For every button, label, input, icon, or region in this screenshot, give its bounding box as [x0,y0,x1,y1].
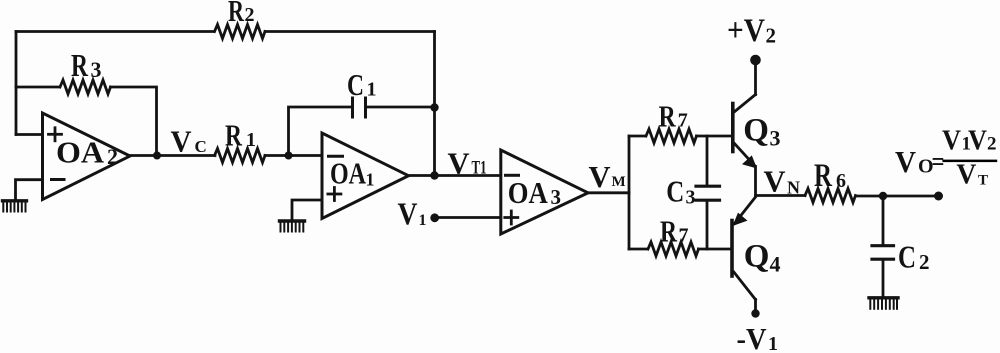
wire C1 right to vertical [366,106,435,109]
minus sign OA1 [329,155,343,158]
op-amp OA3 [501,150,588,234]
svg-text:6: 6 [836,170,846,192]
wire C2 bottom to ground [882,261,885,297]
svg-text:V: V [895,144,917,179]
svg-text:V: V [171,124,193,159]
wire V1 input to OA3 [435,216,501,219]
svg-text:3: 3 [686,186,696,208]
wire branch vertical at VM [628,136,631,249]
wire OA2 output to VC node [130,154,157,157]
wire OA3 output VM [588,191,629,194]
svg-text:R: R [225,118,242,153]
wire OA1 feedback up [289,107,353,156]
capacitor C3 [696,185,720,188]
wire bottom branch to R7 [629,248,647,251]
svg-text:V: V [764,163,787,198]
svg-text:3: 3 [770,126,781,151]
svg-text:T: T [978,172,988,188]
plus sign OA1 [328,188,341,201]
wire C3 top stub [706,136,709,185]
svg-text:4: 4 [770,252,781,277]
wire left feedback vertical [15,32,18,135]
svg-text:C: C [898,239,916,275]
svg-text:OA: OA [56,135,105,170]
svg-text:2: 2 [107,144,118,169]
wire R2 top horizontal left segment [16,30,214,33]
svg-text:1: 1 [367,78,377,100]
wire VN to R6 [756,194,806,197]
wire R2 right vertical down to VT1 [433,32,436,176]
svg-text:OA: OA [330,156,366,191]
resistor R2 [215,25,266,39]
svg-text:C: C [666,173,684,208]
svg-text:1: 1 [768,333,778,353]
resistor R3 [60,80,111,94]
svg-text:R: R [71,47,89,83]
wire OA1 noninverting input to ground [292,200,322,220]
svg-text:C: C [347,67,364,102]
transistor Q3 [733,65,756,196]
svg-text:V: V [968,124,987,156]
wire R3 right to VC node [111,87,157,156]
capacitor C1 [351,98,354,117]
svg-text:R: R [228,0,244,28]
wire C3 bottom stub [706,202,709,250]
label VO fraction bar [942,160,997,163]
svg-text:3: 3 [91,57,102,82]
node -V1 terminal dot [751,309,759,317]
svg-text:OA: OA [508,175,549,210]
svg-text:C: C [195,137,207,156]
wire OA1 output VT1 [409,174,501,177]
svg-text:3: 3 [551,185,562,209]
svg-text:1: 1 [419,212,427,229]
wire C2 top [882,196,885,244]
node VC junction dot [153,152,161,160]
svg-text:V: V [448,145,471,180]
node C1 right junction dot [430,103,438,111]
ground C2 [869,298,898,309]
minus sign OA2 [52,178,65,181]
svg-text:Q: Q [744,239,770,275]
op-amp OA1 [322,133,409,219]
node output terminal dot [934,192,943,201]
svg-text:2: 2 [245,4,255,26]
svg-text:V: V [942,124,961,156]
svg-text:V: V [398,195,418,231]
svg-text:-V: -V [737,321,768,353]
svg-text:2: 2 [919,250,930,274]
wire R7 lower to Q4 base [699,248,731,251]
svg-text:1: 1 [366,170,375,190]
minus sign OA3 [506,174,519,177]
resistor R7 upper [646,129,697,143]
svg-text:M: M [612,174,626,190]
svg-text:Q: Q [743,112,769,148]
node VT1 junction dot [430,171,438,179]
resistor R7 lower [648,242,699,256]
svg-text:T1: T1 [472,158,487,179]
ground OA1 [280,221,305,232]
plus sign OA3 [505,211,518,224]
resistor R6 [805,189,856,203]
resistor R1 [215,149,266,163]
svg-text:2: 2 [766,24,777,48]
transistor Q4 [732,197,756,310]
svg-text:7: 7 [678,109,688,131]
svg-text:7: 7 [679,225,689,247]
wire R3 branch left [16,86,59,89]
svg-text:V: V [589,159,612,194]
op-amp OA2 [43,113,131,200]
capacitor C2 [872,244,894,247]
node V1 input terminal dot [430,213,439,222]
wire R1 to OA1 inverting input [265,154,322,157]
svg-text:1: 1 [246,129,256,151]
wire R7 upper to Q3 base [697,135,732,138]
node +V2 terminal dot [750,55,761,66]
svg-text:V: V [956,159,976,191]
node OA1 input junction dot [285,152,293,160]
wire output node to terminal [883,195,939,198]
plus sign OA2 [49,128,62,141]
wire R2 top horizontal right segment [265,30,435,33]
svg-text:R: R [659,98,676,133]
ground OA2 [3,201,27,212]
wire OA2 inverting input to ground [16,180,43,199]
wire VC to R1 [157,154,215,157]
svg-text:N: N [787,177,800,197]
svg-text:R: R [814,158,833,194]
svg-text:+V: +V [727,13,765,49]
svg-text:2: 2 [987,134,997,155]
wire R6 to output node [856,195,884,198]
svg-text:R: R [660,214,677,249]
node VN output junction dot [879,192,887,200]
wire OA2 noninverting input [16,133,43,136]
wire top branch to R7 [629,135,645,138]
